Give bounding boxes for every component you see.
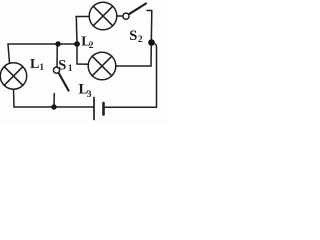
label L2 (81, 35, 93, 51)
svg-text:1: 1 (40, 62, 45, 72)
switch S2 blade (130, 4, 147, 14)
wire S1 bottom lead (53, 94, 55, 108)
lamp L1 (0, 63, 26, 89)
wire left edge bottom (lamp L1 to bottom bus) (13, 89, 16, 107)
wire S2 fixed terminal tick (147, 10, 152, 12)
node junction dot S1 bottom (51, 104, 56, 109)
svg-text:S: S (129, 28, 137, 44)
switch S1 pivot (53, 67, 59, 73)
svg-text:S: S (58, 58, 66, 74)
label L1 (30, 57, 45, 72)
wire right branch drop (S2 corner to L3 wire) (150, 11, 153, 67)
label L3 (79, 82, 92, 100)
svg-text:3: 3 (87, 90, 92, 100)
node junction dot branch split (74, 41, 80, 47)
wire right edge (155, 44, 157, 108)
wire lamp L2 to switch S2 (117, 15, 123, 17)
lamp L2 (89, 2, 117, 30)
switch S2 pivot (123, 13, 129, 19)
wire middle horizontal bus (8, 43, 77, 45)
battery long plate (93, 98, 95, 120)
label S1 (58, 58, 73, 74)
svg-text:L: L (30, 57, 39, 72)
label S2 (129, 28, 143, 45)
wire riser to top branch (75, 17, 78, 45)
svg-text:2: 2 (138, 35, 143, 45)
switch S1 blade (59, 74, 69, 91)
lamp L3 (88, 52, 116, 80)
wire bottom bus right (battery to right corner) (105, 106, 157, 108)
node junction dot right (148, 39, 155, 46)
svg-text:1: 1 (68, 63, 73, 73)
wire top branch left (76, 16, 89, 18)
svg-text:2: 2 (89, 41, 94, 51)
wire L3 branch drop (77, 44, 89, 64)
battery short plate (102, 103, 105, 115)
wire bottom bus left (to battery) (14, 106, 93, 108)
wire left edge top (corner to lamp L1) (8, 44, 10, 63)
wire S1 top lead (56, 44, 58, 67)
node junction dot S1 top (55, 41, 60, 46)
wire lamp L3 right lead (116, 65, 151, 67)
